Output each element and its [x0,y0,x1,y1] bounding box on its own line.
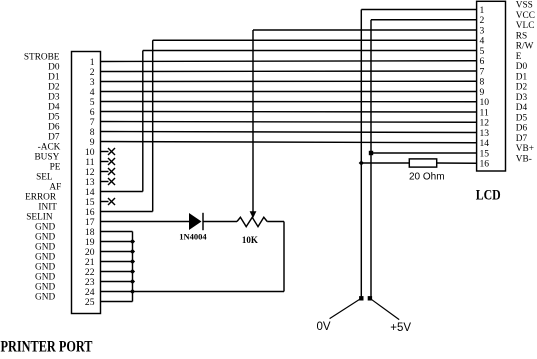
wire INIT printer pin16 stub [101,211,153,213]
wire STROBE printer pin1 to LCD pin6 E [101,60,477,63]
wire diode cathode to potentiometer [203,221,237,223]
wire GND printer pin 18 to bus [101,231,133,233]
svg-text:+5V: +5V [390,322,411,334]
wire INIT vertical riser x=152.7 [152,40,154,211]
svg-text:D0: D0 [48,63,60,73]
svg-text:D5: D5 [48,113,60,123]
svg-text:RS: RS [516,31,527,41]
wire D4 printer pin6 to LCD pin11 [101,111,477,114]
wire GND printer pin 22 to bus [101,271,133,273]
no-connect X mark printer pin 12 [101,168,116,175]
svg-text:16: 16 [480,159,490,170]
svg-text:D6: D6 [516,124,528,134]
potentiometer R1 10K body (zigzag) [237,217,267,226]
svg-text:D3: D3 [48,93,60,103]
wire +5V rail to LCD pin15 VB+ [371,152,477,154]
wire GND printer pin 19 to bus [101,241,133,243]
svg-text:VB+: VB+ [516,144,534,154]
svg-text:GND: GND [35,223,55,233]
junction dot +5V rail bottom [368,296,372,300]
svg-text:GND: GND [35,293,55,303]
svg-text:D4: D4 [516,103,528,113]
wire pot wiper to LCD pin3 VLC [253,29,477,31]
wire AF printer pin14 stub [101,191,143,193]
svg-text:PRINTER PORT: PRINTER PORT [1,338,93,354]
wire D1 printer pin3 to LCD pin8 [101,80,477,82]
svg-text:BUSY: BUSY [34,153,59,163]
svg-text:GND: GND [35,263,55,273]
svg-text:R/W: R/W [516,42,534,52]
connector J2 LCD (16 pin header) [477,1,506,171]
svg-text:GND: GND [35,243,55,253]
svg-text:D4: D4 [48,103,60,113]
svg-text:STROBE: STROBE [24,53,60,63]
junction dot GND bus pin 21 [130,259,135,264]
wire +5V rail to LCD pin2 VCC [371,19,477,21]
svg-text:20 Ohm: 20 Ohm [409,172,445,183]
svg-text:VLC: VLC [516,21,535,31]
svg-text:ERROR: ERROR [25,193,57,203]
wire +5V diagonal lead [370,298,399,319]
svg-text:0V: 0V [317,321,331,333]
svg-text:25: 25 [85,297,95,308]
svg-text:D7: D7 [48,133,60,143]
svg-text:D3: D3 [516,93,528,103]
svg-text:-ACK: -ACK [38,143,61,153]
svg-text:10K: 10K [242,235,258,245]
svg-text:SELIN: SELIN [26,213,53,223]
GND bus vertical x=132.5 [132,232,134,302]
junction dot GND bus pin 20 [130,249,135,254]
svg-text:VCC: VCC [516,11,535,21]
+5V rail vertical x=371 [370,20,372,299]
svg-text:D5: D5 [516,113,528,123]
wire SELIN printer pin17 to diode anode [101,221,190,223]
connector J1 printer port (DB25) [72,52,101,314]
svg-text:D0: D0 [516,62,528,72]
wire 20 Ohm resistor to LCD pin16 VB- [437,162,477,164]
svg-text:LCD: LCD [476,187,501,203]
0V rail vertical x=361.3 [360,10,362,299]
wire AF to LCD pin5 R/W [143,50,477,52]
junction dot 0V rail bottom [359,296,363,300]
svg-text:GND: GND [35,283,55,293]
wire INIT to LCD pin4 RS [153,39,477,41]
junction dot GND bus pin 22 [130,269,135,274]
svg-text:VB-: VB- [516,154,532,164]
wire pot right drop to ground return [283,222,285,292]
no-connect X mark printer pin 10 [101,148,116,155]
svg-text:D6: D6 [48,123,60,133]
svg-text:INIT: INIT [38,203,57,213]
wire ground return to GND bus [133,291,285,293]
no-connect X mark printer pin 13 [101,178,116,185]
wire D6 printer pin8 to LCD pin13 [101,132,477,133]
svg-text:D7: D7 [516,134,528,144]
wire 0V rail to LCD pin1 VSS [361,9,476,11]
junction dot GND bus pin 19 [130,239,135,244]
no-connect X mark printer pin 15 [101,198,116,205]
wire D2 printer pin4 to LCD pin9 [101,91,477,93]
wire 0V diagonal lead [330,298,362,318]
printer port pin numbers 1-25 [85,57,95,308]
no-connect X mark printer pin 11 [101,158,116,165]
svg-text:E: E [516,52,522,62]
wire pot right terminal [267,221,284,223]
svg-text:D1: D1 [48,73,60,83]
svg-text:GND: GND [35,253,55,263]
potentiometer wiper arrow [250,30,257,218]
wire AF vertical riser x=142.8 [142,51,144,192]
wire GND printer pin 23 to bus [101,281,133,283]
wire D7 printer pin9 to LCD pin14 [101,142,477,143]
svg-text:D2: D2 [516,83,528,93]
junction dot 0V rail to VB- [359,160,364,165]
wire D5 printer pin7 to LCD pin12 [101,121,477,124]
resistor R2 20 Ohm [409,159,436,167]
junction dot GND bus pin 23 [130,279,135,284]
wire D3 printer pin5 to LCD pin10 [101,101,477,103]
junction dot +5V rail to VB+ [369,151,373,155]
svg-text:GND: GND [35,233,55,243]
wire 0V rail to 20 Ohm resistor [361,162,409,164]
wire GND printer pin 21 to bus [101,261,133,263]
svg-text:PE: PE [50,163,61,173]
wire GND printer pin 20 to bus [101,251,133,253]
wire GND printer pin 25 to bus [101,301,133,303]
junction dot GND bus pin 24 [130,289,135,294]
wire GND printer pin 24 to bus [101,291,133,293]
svg-text:AF: AF [49,183,61,193]
LCD pin numbers 1-16 [480,5,490,170]
svg-text:D2: D2 [48,83,60,93]
svg-text:VSS: VSS [516,1,533,11]
svg-text:1N4004: 1N4004 [179,231,207,241]
svg-text:SEL: SEL [36,173,53,183]
diode D1 1N4004 [189,213,203,230]
svg-text:D1: D1 [516,72,528,82]
svg-text:GND: GND [35,273,55,283]
wire D0 printer pin2 to LCD pin7 [101,70,477,73]
